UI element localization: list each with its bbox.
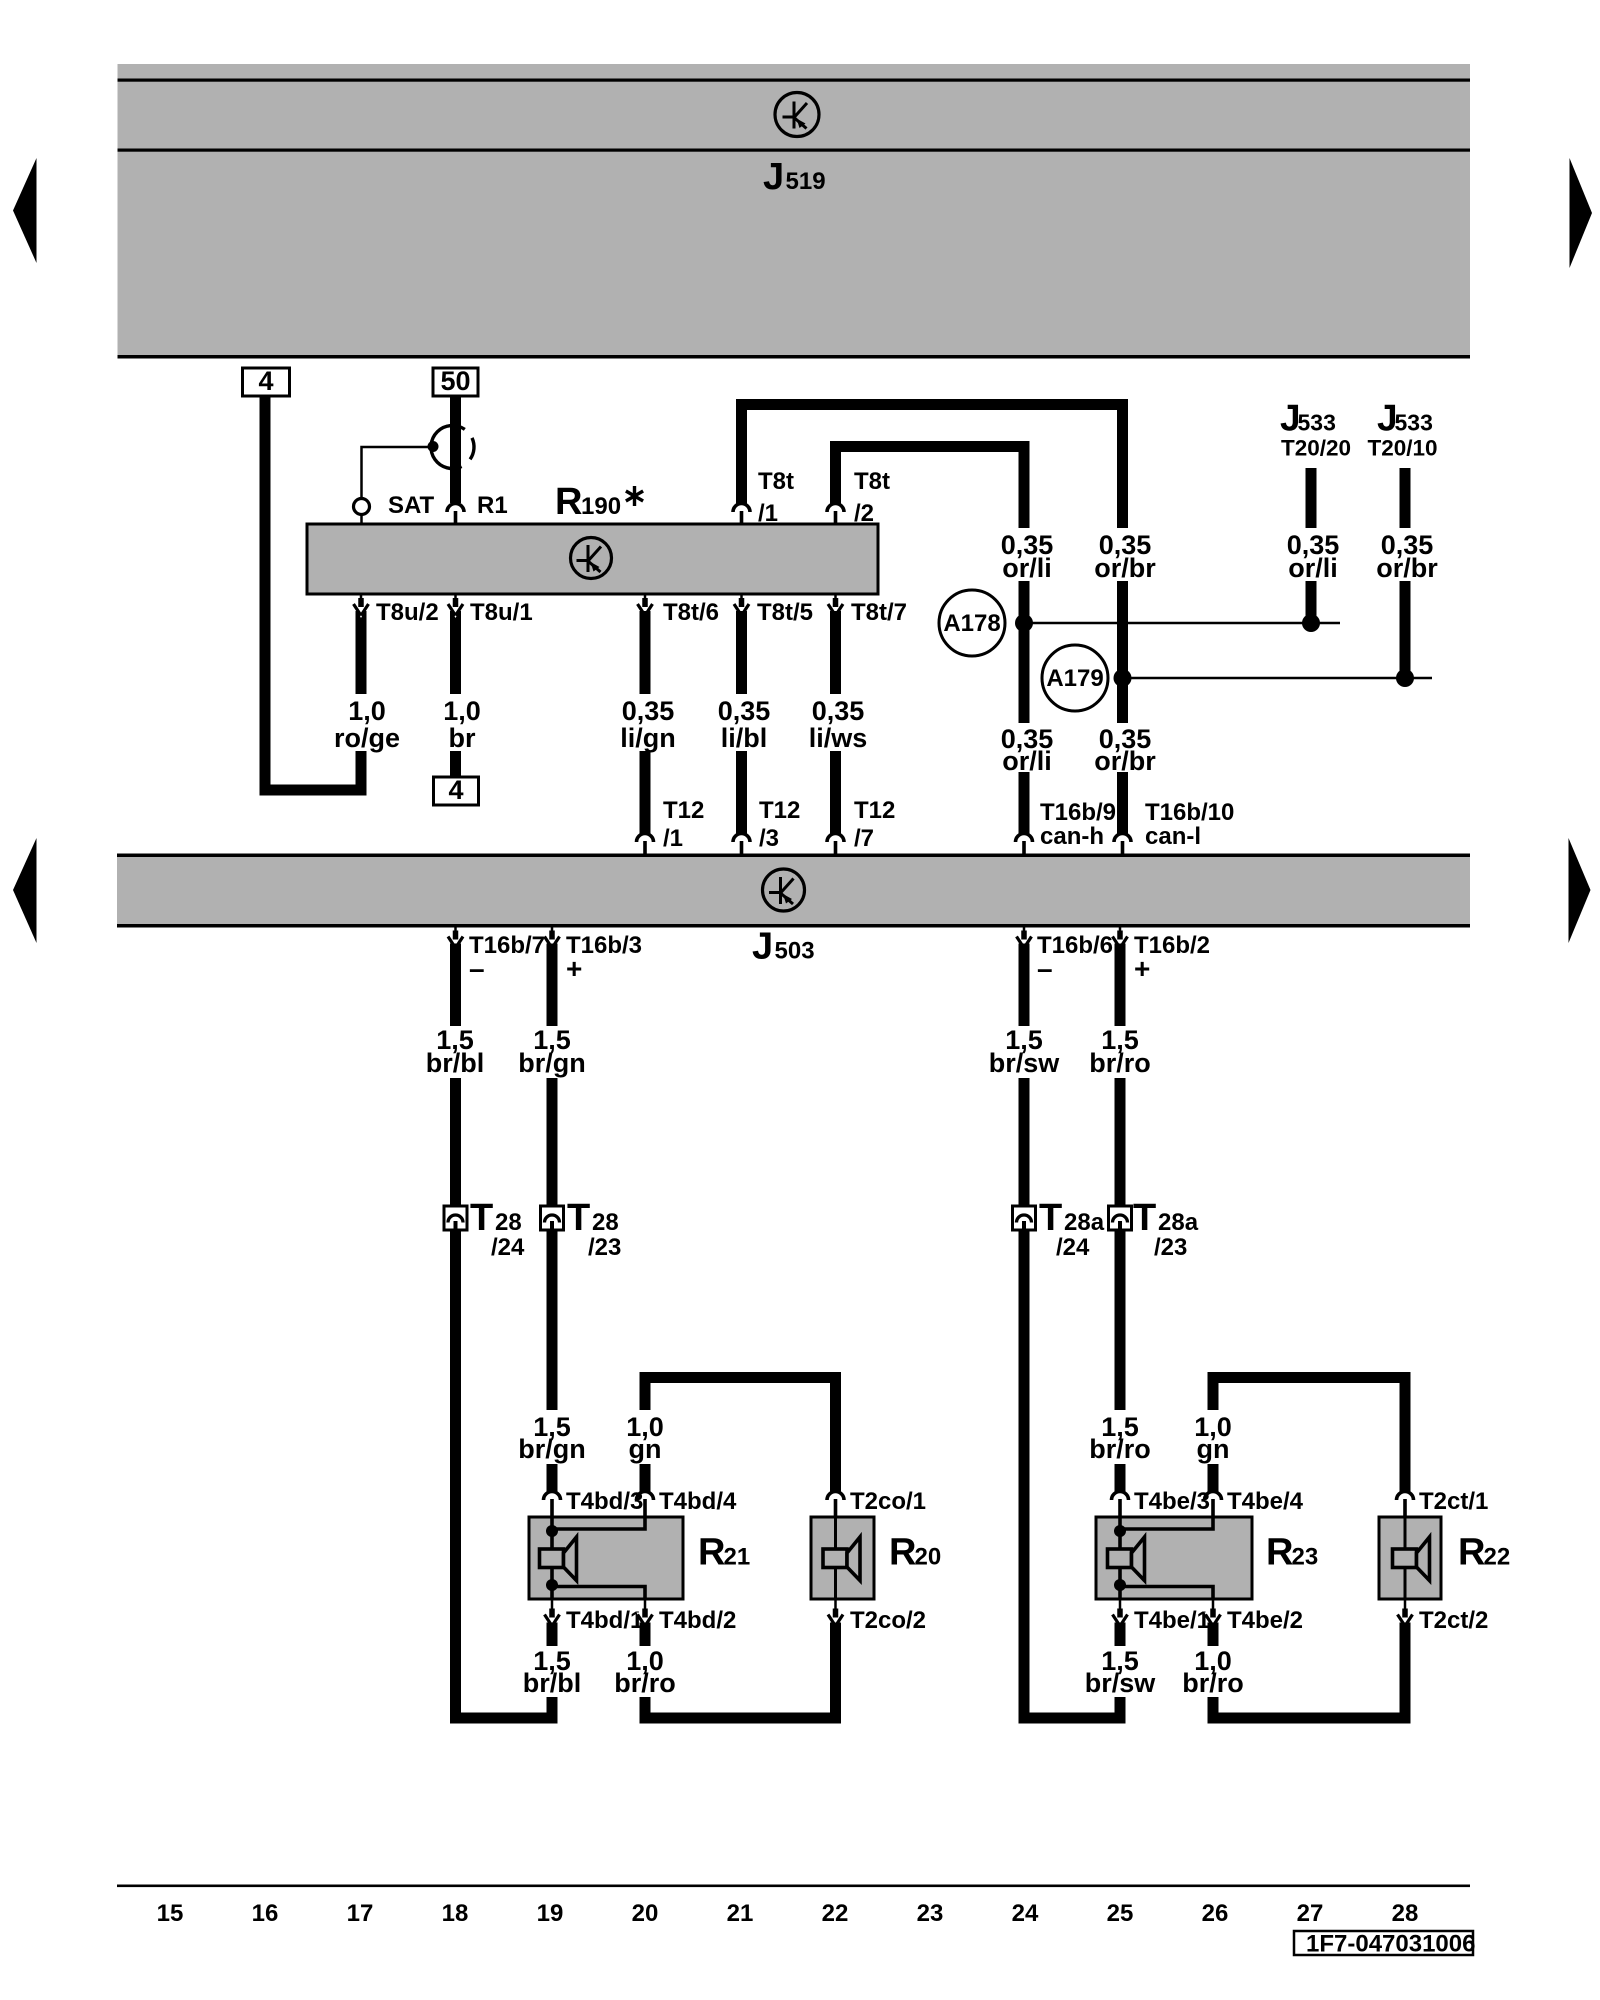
wire T8t/2 riser bbox=[830, 441, 841, 504]
svg-text:/7: /7 bbox=[854, 825, 874, 852]
svg-text:15: 15 bbox=[157, 1900, 184, 1927]
pin T4be/3 bbox=[1112, 1492, 1129, 1500]
svg-text:R: R bbox=[1266, 1532, 1293, 1574]
wire 0,35 li/gn upper bbox=[640, 611, 651, 694]
svg-text:22: 22 bbox=[822, 1900, 849, 1927]
connector T28/23 bbox=[541, 1206, 564, 1230]
svg-text:br/bl: br/bl bbox=[523, 1668, 582, 1698]
svg-text:533: 533 bbox=[1395, 410, 1433, 436]
pin T4bd/2 bbox=[644, 1599, 647, 1612]
svg-text:T16b/10: T16b/10 bbox=[1145, 799, 1234, 826]
pin T16b/7 bbox=[454, 927, 457, 934]
bass speaker R23 box bbox=[1096, 1517, 1252, 1599]
junction dot can-h left bbox=[1015, 614, 1033, 632]
svg-text:br/sw: br/sw bbox=[1085, 1668, 1157, 1698]
svg-text:/2: /2 bbox=[854, 500, 874, 527]
pin T8t/6 bbox=[644, 594, 647, 601]
svg-text:519: 519 bbox=[786, 168, 826, 195]
pin T16b/6 bbox=[1023, 927, 1026, 934]
svg-text:–: – bbox=[1037, 953, 1053, 984]
svg-text:T2co/1: T2co/1 bbox=[850, 1488, 926, 1515]
svg-text:br/ro: br/ro bbox=[1089, 1434, 1151, 1464]
svg-text:T16b/9: T16b/9 bbox=[1040, 799, 1116, 826]
svg-text:T4bd/3: T4bd/3 bbox=[566, 1488, 643, 1515]
R22 speaker icon bbox=[1393, 1549, 1417, 1568]
svg-text:R: R bbox=[698, 1532, 725, 1574]
wire 1,5 br/ro seg2 bbox=[1115, 1078, 1126, 1410]
wire 1,0 gn drop right bbox=[1208, 1383, 1219, 1410]
svg-text:21: 21 bbox=[724, 1544, 751, 1571]
wire T4bd/2 seg bbox=[640, 1623, 651, 1647]
svg-text:T12: T12 bbox=[663, 797, 704, 824]
pin T2co/1 bbox=[827, 1492, 844, 1500]
bass speaker R21 box bbox=[529, 1517, 683, 1599]
svg-text:or/br: or/br bbox=[1094, 553, 1156, 583]
svg-text:br: br bbox=[449, 723, 476, 753]
pin T4bd/1 bbox=[551, 1599, 554, 1612]
svg-text:T2ct/2: T2ct/2 bbox=[1419, 1607, 1488, 1634]
R22 internal wire bbox=[1404, 1517, 1407, 1599]
wire 1,0 ro/ge upper seg bbox=[356, 611, 367, 694]
pin T8t/7 bbox=[834, 594, 837, 601]
svg-text:gn: gn bbox=[1197, 1434, 1230, 1464]
wire bottom run left pair bbox=[450, 1713, 558, 1724]
svg-text:0,35: 0,35 bbox=[812, 696, 865, 726]
wire T2co/2 return bbox=[830, 1623, 841, 1724]
K-symbol in J503 bbox=[763, 869, 805, 911]
junction dot can-h right bbox=[1302, 614, 1320, 632]
pin T8u/1 bbox=[454, 594, 457, 601]
svg-text:T20/10: T20/10 bbox=[1368, 436, 1438, 461]
svg-text:21: 21 bbox=[727, 1900, 754, 1927]
node A179 circle bbox=[1042, 645, 1108, 711]
svg-text:T: T bbox=[1133, 1197, 1156, 1239]
wire T8t/2 horizontal run bbox=[830, 441, 1030, 452]
wire 0,35 li/bl lower bbox=[736, 751, 747, 834]
wire 1,0 gn seg2 right bbox=[1208, 1464, 1219, 1492]
svg-text:li/bl: li/bl bbox=[721, 723, 768, 753]
wire 1,5 br/gn seg3 bbox=[547, 1464, 558, 1492]
pin T4be/1 bbox=[1119, 1599, 1122, 1612]
grid baseline bbox=[117, 1885, 1470, 1888]
svg-text:26: 26 bbox=[1202, 1900, 1229, 1927]
svg-text:/23: /23 bbox=[1154, 1234, 1187, 1261]
svg-text:gn: gn bbox=[629, 1434, 662, 1464]
page arrow right top bbox=[1570, 158, 1593, 268]
junction dot on antenna bbox=[428, 441, 439, 452]
pin T16b/10 bbox=[1114, 834, 1131, 843]
pin T12/3 bbox=[733, 834, 750, 843]
svg-text:17: 17 bbox=[347, 1900, 374, 1927]
svg-text:23: 23 bbox=[1292, 1544, 1319, 1571]
thin can-l line bbox=[1123, 677, 1433, 680]
svg-text:T: T bbox=[470, 1197, 493, 1239]
wire J533/T20-10 seg1 bbox=[1400, 468, 1411, 528]
pin T16b/2 bbox=[1119, 927, 1122, 934]
wire 1,0 br upper seg bbox=[450, 611, 461, 694]
wire 0,35 or/li seg3 bbox=[1019, 772, 1030, 834]
pin T2ct/2 bbox=[1404, 1599, 1407, 1612]
svg-text:0,35: 0,35 bbox=[718, 696, 771, 726]
svg-text:T8t/6: T8t/6 bbox=[663, 599, 719, 626]
wire 0,35 li/gn lower bbox=[640, 751, 651, 834]
svg-text:or/br: or/br bbox=[1376, 553, 1438, 583]
svg-text:or/br: or/br bbox=[1094, 746, 1156, 776]
wire 1,5 br/gn seg2 bbox=[547, 1078, 558, 1410]
svg-text:T8u/1: T8u/1 bbox=[470, 599, 533, 626]
junction dot can-l right bbox=[1396, 669, 1414, 687]
svg-text:br/gn: br/gn bbox=[518, 1434, 586, 1464]
wire 1,5 br/sw long bbox=[1019, 1078, 1030, 1724]
svg-text:T4be/2: T4be/2 bbox=[1227, 1607, 1303, 1634]
R23 internal wiring bbox=[1118, 1517, 1122, 1599]
svg-text:28: 28 bbox=[1392, 1900, 1419, 1927]
svg-text:23: 23 bbox=[917, 1900, 944, 1927]
svg-text:can-h: can-h bbox=[1040, 823, 1104, 850]
page arrow right mid bbox=[1569, 838, 1591, 943]
svg-text:+: + bbox=[566, 953, 582, 984]
wire T8t/1 riser bbox=[736, 399, 747, 504]
svg-text:503: 503 bbox=[775, 938, 815, 965]
svg-text:J: J bbox=[763, 156, 784, 198]
svg-text:22: 22 bbox=[1484, 1544, 1511, 1571]
svg-text:T4bd/4: T4bd/4 bbox=[659, 1488, 737, 1515]
svg-text:T8t: T8t bbox=[854, 468, 890, 495]
svg-text:+: + bbox=[1134, 953, 1150, 984]
wire 0,35 li/ws lower bbox=[830, 751, 841, 834]
svg-text:li/gn: li/gn bbox=[620, 723, 676, 753]
wire bottom run right pair bbox=[1019, 1713, 1126, 1724]
svg-text:T8t/5: T8t/5 bbox=[757, 599, 813, 626]
svg-text:27: 27 bbox=[1297, 1900, 1324, 1927]
pin T16b/3 bbox=[551, 927, 554, 934]
svg-text:R: R bbox=[1458, 1532, 1485, 1574]
svg-text:28: 28 bbox=[495, 1209, 522, 1236]
wire 0,35 li/bl upper bbox=[736, 611, 747, 694]
wire 1,0 gn seg2 left bbox=[640, 1464, 651, 1492]
pin T12/1 bbox=[637, 834, 654, 843]
svg-text:T20/20: T20/20 bbox=[1281, 436, 1351, 461]
pin R1 bbox=[447, 504, 464, 513]
wire T2ct/1 drop bbox=[1400, 1383, 1411, 1492]
svg-text:/1: /1 bbox=[663, 825, 683, 852]
wire 0,35 or/li seg1 bbox=[1019, 441, 1030, 528]
wire 0,35 or/br seg2 bbox=[1117, 581, 1128, 723]
svg-text:T4bd/2: T4bd/2 bbox=[659, 1607, 736, 1634]
R20 speaker icon bbox=[823, 1549, 847, 1568]
svg-text:R: R bbox=[889, 1532, 916, 1574]
wire 0,35 or/br seg1 bbox=[1117, 399, 1128, 528]
svg-text:18: 18 bbox=[442, 1900, 469, 1927]
svg-text:/23: /23 bbox=[588, 1234, 621, 1261]
wire T4bd/1 seg bbox=[547, 1623, 558, 1647]
diagram code box bbox=[1294, 1931, 1473, 1955]
pin T4bd/3 bbox=[544, 1492, 561, 1500]
wire 1,5 br/ro seg1 bbox=[1115, 944, 1126, 1027]
svg-text:SAT: SAT bbox=[388, 492, 435, 519]
wire T2co/1 drop bbox=[830, 1383, 841, 1492]
svg-text:T4be/3: T4be/3 bbox=[1134, 1488, 1210, 1515]
R21 internal wiring bbox=[550, 1517, 554, 1599]
wire 1,5 br/sw seg1 bbox=[1019, 944, 1030, 1027]
svg-text:19: 19 bbox=[537, 1900, 564, 1927]
svg-text:T: T bbox=[1039, 1197, 1062, 1239]
terminal 4 box bbox=[243, 368, 290, 396]
svg-text:li/ws: li/ws bbox=[809, 723, 868, 753]
pin T4bd/4 bbox=[637, 1492, 654, 1500]
terminal 50 box bbox=[433, 368, 478, 396]
R21 speaker icon bbox=[540, 1549, 564, 1568]
svg-text:T8t/7: T8t/7 bbox=[851, 599, 907, 626]
svg-text:A179: A179 bbox=[1046, 665, 1103, 692]
svg-text:/3: /3 bbox=[759, 825, 779, 852]
R20 internal wire bbox=[834, 1517, 837, 1599]
svg-text:or/li: or/li bbox=[1002, 746, 1052, 776]
pin T8t/1 bbox=[733, 504, 750, 513]
wire 1,0 gn drop left bbox=[640, 1383, 651, 1410]
svg-text:28: 28 bbox=[592, 1209, 619, 1236]
wire 1,5 br/bl seg4 bbox=[547, 1697, 558, 1724]
wire J533/T20-10 seg2 bbox=[1400, 581, 1411, 672]
K-symbol in J519 bbox=[775, 93, 819, 137]
wire 0,35 or/li seg2 bbox=[1019, 581, 1030, 723]
wire 1,5 br/ro seg3 bbox=[1115, 1464, 1126, 1492]
svg-text:190: 190 bbox=[581, 493, 621, 520]
svg-text:ro/ge: ro/ge bbox=[334, 723, 400, 753]
pin T4be/2 bbox=[1212, 1599, 1215, 1612]
junction dot can-l left bbox=[1114, 669, 1132, 687]
svg-text:/24: /24 bbox=[1056, 1234, 1090, 1261]
svg-text:0,35: 0,35 bbox=[622, 696, 675, 726]
wire 0,35 li/ws upper bbox=[830, 611, 841, 694]
svg-text:/24: /24 bbox=[491, 1234, 525, 1261]
pin T4be/4 bbox=[1205, 1492, 1222, 1500]
svg-text:br/bl: br/bl bbox=[426, 1048, 485, 1078]
svg-text:T12: T12 bbox=[759, 797, 800, 824]
svg-text:28a: 28a bbox=[1158, 1209, 1199, 1236]
svg-text:T8u/2: T8u/2 bbox=[376, 599, 439, 626]
connector T28/24 bbox=[444, 1206, 467, 1230]
wire J533/T20-20 seg1 bbox=[1306, 468, 1317, 528]
svg-text:br/gn: br/gn bbox=[518, 1048, 586, 1078]
wire 1,0 br/ro seg left bbox=[640, 1697, 651, 1724]
svg-text:24: 24 bbox=[1012, 1900, 1039, 1927]
treble speaker R22 box bbox=[1379, 1517, 1441, 1599]
svg-text:T8t: T8t bbox=[758, 468, 794, 495]
svg-text:1,0: 1,0 bbox=[348, 696, 386, 726]
radio R190 box bbox=[307, 524, 878, 594]
pin SAT terminal bbox=[354, 499, 370, 515]
wire 1,0 br/ro seg right bbox=[1208, 1697, 1219, 1724]
amplifier J503 bus bar bbox=[117, 854, 1470, 928]
pin T8t/2 bbox=[827, 504, 844, 513]
svg-text:br/ro: br/ro bbox=[1182, 1668, 1244, 1698]
wire 1,5 br/sw seg4 bbox=[1115, 1697, 1126, 1724]
K-symbol in R190 bbox=[571, 538, 612, 579]
wire 1,0 ro/ge lower seg bbox=[356, 751, 367, 796]
node A178 circle bbox=[939, 590, 1005, 656]
svg-text:/1: /1 bbox=[758, 500, 778, 527]
svg-text:T2ct/1: T2ct/1 bbox=[1419, 1488, 1488, 1515]
pin T2ct/1 bbox=[1397, 1492, 1414, 1500]
svg-text:1F7-047031006: 1F7-047031006 bbox=[1306, 1931, 1475, 1958]
svg-text:br/ro: br/ro bbox=[614, 1668, 676, 1698]
wire corner to T8u/2 bbox=[260, 785, 367, 796]
wire 1,5 br/gn seg1 bbox=[547, 944, 558, 1027]
pin T2co/2 bbox=[834, 1599, 837, 1612]
svg-text:T4be/1: T4be/1 bbox=[1134, 1607, 1210, 1634]
svg-text:T4bd/1: T4bd/1 bbox=[566, 1607, 643, 1634]
pin T16b/9 bbox=[1016, 834, 1033, 843]
svg-text:20: 20 bbox=[915, 1544, 942, 1571]
control unit J519 bus bar bbox=[118, 64, 1471, 356]
wire 1,5 br/bl long bbox=[450, 1078, 461, 1724]
wire T8t/1 horizontal run bbox=[736, 399, 1128, 410]
svg-text:T4be/4: T4be/4 bbox=[1227, 1488, 1304, 1515]
svg-text:20: 20 bbox=[632, 1900, 659, 1927]
treble speaker R20 box bbox=[811, 1517, 874, 1599]
wire from terminal 50 down bbox=[450, 396, 461, 503]
pin T8u/2 bbox=[360, 594, 363, 601]
R23 speaker icon bbox=[1108, 1549, 1132, 1568]
svg-text:T12: T12 bbox=[854, 797, 895, 824]
svg-text:T2co/2: T2co/2 bbox=[850, 1607, 926, 1634]
wire T4be/2 seg bbox=[1208, 1623, 1219, 1647]
wire 1,0 gn top run left bbox=[640, 1372, 842, 1383]
wire 1,5 br/bl seg1 bbox=[450, 944, 461, 1027]
wire 1,0 br lower seg bbox=[450, 751, 461, 777]
connector T28a/23 bbox=[1109, 1206, 1132, 1230]
svg-text:533: 533 bbox=[1298, 410, 1336, 436]
wire 1,0 gn top run right bbox=[1208, 1372, 1411, 1383]
wire 0,35 or/br seg3 bbox=[1117, 772, 1128, 834]
terminal 4 box lower bbox=[434, 777, 479, 805]
svg-text:br/sw: br/sw bbox=[989, 1048, 1061, 1078]
svg-text:28a: 28a bbox=[1064, 1209, 1105, 1236]
wire SAT thin bbox=[362, 447, 434, 499]
page arrow left mid bbox=[13, 838, 37, 943]
svg-text:–: – bbox=[469, 953, 485, 984]
svg-text:4: 4 bbox=[448, 775, 463, 805]
svg-text:A178: A178 bbox=[943, 610, 1000, 637]
connector T28a/24 bbox=[1013, 1206, 1036, 1230]
svg-text:1,0: 1,0 bbox=[443, 696, 481, 726]
svg-text:25: 25 bbox=[1107, 1900, 1134, 1927]
svg-text:br/ro: br/ro bbox=[1089, 1048, 1151, 1078]
svg-text:or/li: or/li bbox=[1002, 553, 1052, 583]
wire J533/T20-20 seg2 bbox=[1306, 581, 1317, 617]
thin can-h line bbox=[1024, 622, 1340, 625]
wire bottom run right tweeter bbox=[1208, 1713, 1411, 1724]
pin T12/7 bbox=[827, 834, 844, 843]
svg-text:R: R bbox=[555, 481, 582, 523]
svg-text:J: J bbox=[752, 926, 773, 968]
svg-text:can-l: can-l bbox=[1145, 823, 1201, 850]
svg-text:50: 50 bbox=[440, 366, 470, 396]
svg-text:or/li: or/li bbox=[1288, 553, 1338, 583]
wire T4be/1 seg bbox=[1115, 1623, 1126, 1647]
svg-text:T: T bbox=[567, 1197, 590, 1239]
page arrow left top bbox=[13, 158, 37, 263]
wire from terminal 4 down bbox=[260, 396, 271, 796]
svg-text:R1: R1 bbox=[477, 492, 508, 519]
pin T8t/5 bbox=[740, 594, 743, 601]
svg-text:16: 16 bbox=[252, 1900, 279, 1927]
wire bottom run left tweeter bbox=[640, 1713, 842, 1724]
antenna symbol on R1 wire bbox=[470, 438, 474, 459]
wire T2ct/2 return bbox=[1400, 1623, 1411, 1724]
svg-text:4: 4 bbox=[258, 366, 273, 396]
